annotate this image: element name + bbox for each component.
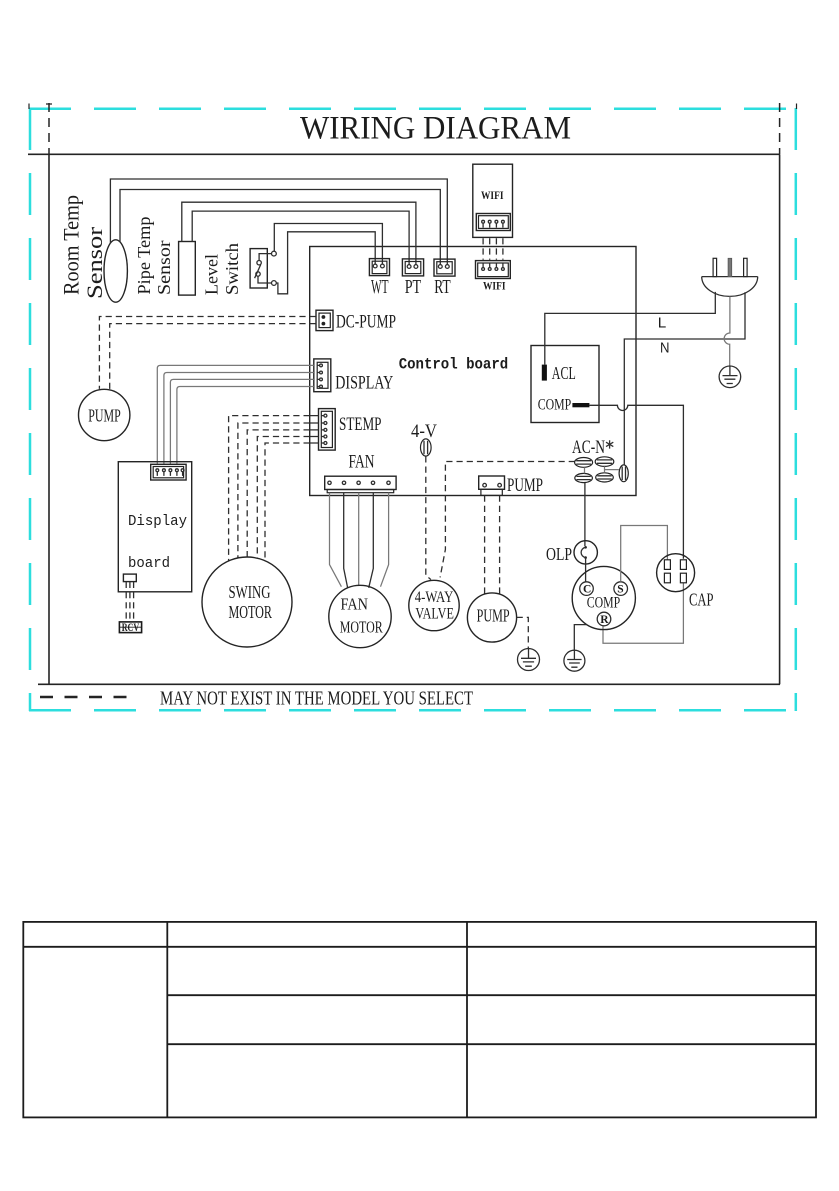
wire N: plug to AC-N terminal xyxy=(624,292,745,465)
connector FAN xyxy=(325,476,396,493)
level switch SW1 xyxy=(250,249,276,288)
corner tick top-left xyxy=(29,104,52,110)
room temp sensor label xyxy=(59,195,108,299)
dashed wires WIFI module to board xyxy=(483,238,503,260)
svg-text:Sensor: Sensor xyxy=(82,226,107,299)
compressor COMP xyxy=(572,566,635,629)
fan motor M3 xyxy=(329,585,391,647)
svg-text:STEMP: STEMP xyxy=(339,414,382,435)
svg-text:WIFI: WIFI xyxy=(481,190,504,202)
svg-text:N: N xyxy=(660,340,670,356)
wire S to CAP xyxy=(621,526,668,582)
svg-text:L: L xyxy=(658,315,667,331)
dashed wire pump B xyxy=(499,496,501,596)
wire room sensor lead B to RT xyxy=(120,190,440,265)
ACL terminal (black) xyxy=(542,365,547,381)
4-way valve coil xyxy=(409,580,459,630)
swing motor M2 xyxy=(202,557,292,647)
connector WIFI on board xyxy=(476,261,511,279)
ground (plug earth) xyxy=(719,366,741,388)
wire COMP: ACL to compressor R (with hop over N wire) xyxy=(589,405,683,559)
svg-text:DC-PUMP: DC-PUMP xyxy=(336,312,396,333)
svg-text:CAP: CAP xyxy=(689,590,714,610)
COMP terminal bar (black) xyxy=(572,403,589,407)
dashed wire stemp 1 to swing motor xyxy=(229,416,310,561)
corner tick top-right xyxy=(796,104,798,110)
svg-text:WIFI: WIFI xyxy=(483,281,506,293)
diagram frame xyxy=(38,154,780,684)
svg-text:COMP: COMP xyxy=(587,595,621,612)
wire fan 1 xyxy=(330,493,342,587)
svg-text:OLP: OLP xyxy=(546,544,572,564)
table xyxy=(23,922,816,1118)
AC-N terminal block xyxy=(575,457,629,483)
connector RT xyxy=(434,259,455,276)
svg-text:AC-N: AC-N xyxy=(572,437,605,458)
svg-text:PUMP: PUMP xyxy=(507,475,543,496)
wire AC-N to OLP xyxy=(584,483,586,546)
svg-text:RT: RT xyxy=(434,277,451,298)
svg-text:DISPLAY: DISPLAY xyxy=(335,373,393,394)
dashed wire DC-PUMP to pump B xyxy=(110,324,316,390)
svg-text:RCV: RCV xyxy=(122,622,140,634)
wire display 2 xyxy=(164,373,314,464)
dashed wire pump to ground xyxy=(517,617,529,648)
wire compressor chassis to ground xyxy=(574,625,586,650)
connector on WIFI module xyxy=(476,214,510,231)
power plug P1 xyxy=(702,258,758,296)
dashed wire stemp 5 to swing motor xyxy=(265,443,310,561)
pipe temp sensor label xyxy=(134,216,174,295)
dashed wire DC-PUMP to pump A xyxy=(99,317,315,389)
svg-text:Sensor: Sensor xyxy=(154,240,174,295)
pump motor M1 (dashed option) xyxy=(79,389,130,440)
wire display 3 xyxy=(170,379,313,464)
connector STEMP xyxy=(319,409,336,451)
svg-text:PT: PT xyxy=(405,277,422,298)
svg-text:COMP: COMP xyxy=(538,397,572,414)
svg-text:SWING: SWING xyxy=(229,582,271,602)
RCV receiver xyxy=(119,622,141,634)
dashed wire stemp 4 to swing motor xyxy=(257,437,309,559)
svg-text:Switch: Switch xyxy=(222,243,242,295)
fold mark left dashed xyxy=(48,103,50,154)
svg-text:WT: WT xyxy=(371,277,389,298)
RCV connector on display board xyxy=(123,574,136,582)
dashed wire pump A xyxy=(484,496,486,595)
connector PUMP on board xyxy=(479,476,505,495)
pump motor M4 xyxy=(467,593,516,642)
capacitor CAP xyxy=(657,554,695,592)
fold mark right dashed xyxy=(779,103,781,154)
connector on display board xyxy=(151,464,186,480)
control board U1 xyxy=(310,247,636,496)
ground (compressor) xyxy=(564,650,585,671)
wire pipe sensor lead B to PT xyxy=(192,211,409,265)
wire fan 4 xyxy=(369,493,374,588)
svg-text:VALVE: VALVE xyxy=(415,605,454,622)
level switch label xyxy=(202,243,243,295)
svg-text:PUMP: PUMP xyxy=(477,605,510,625)
connector DISPLAY xyxy=(314,359,331,392)
svg-text:MOTOR: MOTOR xyxy=(340,618,383,637)
stemp solid stubs xyxy=(310,416,319,443)
svg-text:MOTOR: MOTOR xyxy=(229,602,273,622)
wire room sensor lead A to RT xyxy=(110,179,447,265)
legend dashed line xyxy=(40,696,136,699)
svg-text:Display: Display xyxy=(128,513,187,530)
svg-text:ACL: ACL xyxy=(552,363,576,383)
4-V crimp terminal xyxy=(421,439,432,456)
page border cyan dashed xyxy=(29,108,797,711)
wire OLP to C xyxy=(585,558,587,582)
wire fan 2 xyxy=(344,493,348,588)
pipe temp sensor body xyxy=(179,242,196,296)
wire pipe sensor lead A to PT xyxy=(182,202,416,264)
svg-text:FAN: FAN xyxy=(349,452,375,473)
svg-text:PUMP: PUMP xyxy=(88,405,121,425)
svg-text:MAY NOT EXIST IN THE MODEL YOU: MAY NOT EXIST IN THE MODEL YOU SELECT xyxy=(160,688,473,710)
svg-text:Pipe Temp: Pipe Temp xyxy=(134,216,154,294)
OLP protector xyxy=(574,541,597,564)
svg-text:R: R xyxy=(600,614,609,626)
wire L: plug to ACL xyxy=(545,292,716,365)
room temp sensor bulb xyxy=(104,240,127,302)
WIFI module box xyxy=(473,164,513,237)
display board xyxy=(118,462,191,592)
svg-text:FAN: FAN xyxy=(341,595,369,614)
connector DC-PUMP xyxy=(316,310,333,330)
dashed wire stemp 3 to swing motor xyxy=(247,430,310,557)
wire fan 3 xyxy=(358,493,360,586)
connector PT xyxy=(402,259,423,276)
svg-text:board: board xyxy=(128,555,170,572)
ACL box xyxy=(531,346,599,423)
svg-text:WIRING DIAGRAM: WIRING DIAGRAM xyxy=(300,111,571,147)
wire level switch top terminal to WT xyxy=(274,224,382,265)
connector WT xyxy=(369,259,389,276)
svg-text:4-WAY: 4-WAY xyxy=(415,589,454,606)
svg-text:Room Temp: Room Temp xyxy=(59,195,84,295)
wire fan 5 xyxy=(381,493,389,587)
dashed wires to RCV xyxy=(126,582,133,622)
dashed wire 4-way valve to AC-N xyxy=(440,462,575,578)
dashed wire 4-V to 4-way valve xyxy=(426,456,431,579)
wire display 1 xyxy=(157,365,313,464)
dashed wire stemp 2 to swing motor xyxy=(238,423,310,558)
svg-text:Control board: Control board xyxy=(399,355,509,373)
wire level switch bottom terminal to WT xyxy=(276,232,375,294)
svg-text:Level: Level xyxy=(202,254,222,295)
earth wire from plug (with hop over N) xyxy=(724,296,730,366)
title separator line xyxy=(28,153,780,155)
ground (pump) xyxy=(518,649,540,671)
wire display 4 xyxy=(177,387,314,464)
